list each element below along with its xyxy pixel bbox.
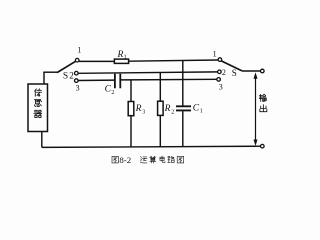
wire sensor bottom — [41, 132, 43, 148]
resistor R3 — [128, 102, 134, 116]
svg-text:C: C — [193, 104, 200, 114]
wire sensor top vertical — [43, 72, 45, 84]
svg-text:2: 2 — [111, 90, 114, 96]
svg-text:1: 1 — [77, 46, 81, 55]
wire row1 right — [129, 60, 219, 61]
switch S1 blade — [57, 61, 76, 72]
caption 图8-2 运算电路图 — [112, 156, 184, 163]
wire pole horizontal — [43, 71, 57, 73]
wire pole to output — [242, 70, 261, 72]
svg-text:1: 1 — [213, 49, 217, 58]
wire row3 right — [121, 78, 217, 81]
wire R3 top drop — [130, 80, 132, 101]
terminal out top — [261, 69, 265, 73]
svg-text:1: 1 — [200, 109, 203, 115]
terminal out bottom — [261, 144, 265, 148]
output indicator line — [255, 75, 257, 144]
contact R2 — [218, 70, 222, 74]
contact R1 — [218, 58, 222, 62]
svg-text:S: S — [232, 68, 237, 78]
svg-text:3: 3 — [219, 82, 223, 91]
svg-text:S: S — [63, 72, 68, 82]
svg-text:2: 2 — [171, 109, 174, 115]
resistor R2 — [158, 101, 164, 115]
wire R3 bottom — [130, 116, 132, 148]
wire C1 top drop — [182, 61, 184, 106]
svg-text:2: 2 — [69, 71, 74, 81]
sensor box 传感器 — [28, 84, 48, 132]
text 输出 (output) vertical — [259, 94, 267, 111]
contact R3 — [217, 78, 221, 82]
output arrow up — [254, 72, 258, 78]
text 传感器 (sensor) vertical — [34, 89, 42, 118]
svg-text:3: 3 — [142, 109, 145, 115]
contact L2 — [75, 71, 79, 75]
switch S2 blade — [222, 61, 243, 71]
svg-text:R: R — [117, 50, 124, 60]
wire bottom rail — [42, 146, 261, 147]
contact L1 — [75, 58, 79, 62]
capacitor C2 — [115, 74, 120, 89]
wire R2 bottom — [159, 115, 161, 147]
svg-text:1: 1 — [124, 54, 127, 60]
wire row2 — [78, 72, 218, 73]
svg-text:2: 2 — [222, 68, 226, 77]
svg-text:R: R — [135, 104, 142, 114]
capacitor C1 — [176, 106, 191, 110]
output arrow down — [254, 140, 258, 146]
svg-text:R: R — [164, 104, 171, 114]
wire row1 left — [79, 60, 115, 62]
resistor R1 — [114, 59, 128, 63]
svg-text:8-2: 8-2 — [119, 155, 131, 165]
wire R2 top drop — [159, 73, 161, 102]
svg-text:3: 3 — [76, 83, 80, 92]
wire row3 left — [78, 79, 114, 81]
contact L3 — [75, 79, 79, 83]
wire C1 bottom — [182, 111, 184, 147]
